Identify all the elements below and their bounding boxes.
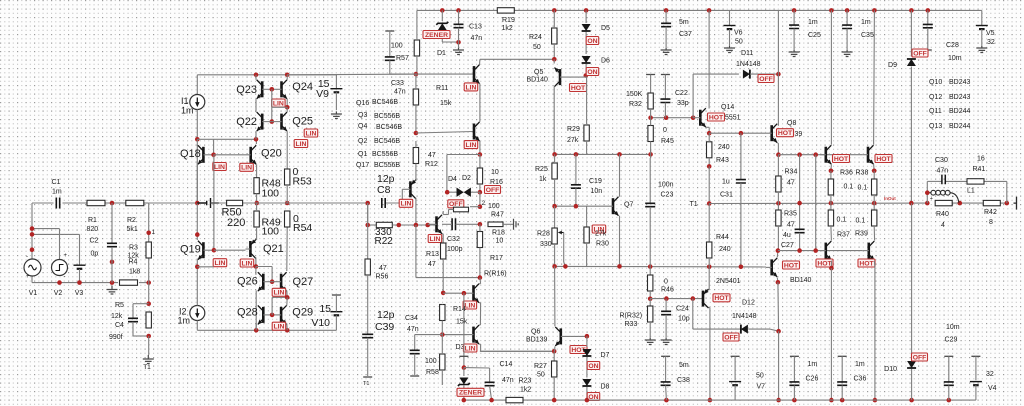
svg-text:C38: C38	[677, 377, 690, 384]
transistor Q21	[249, 241, 252, 257]
diode D10	[911, 203, 913, 359]
wire R53 to rail	[286, 185, 288, 203]
svg-text:LIN: LIN	[274, 324, 285, 331]
svg-text:330: 330	[540, 241, 552, 248]
transistor output NPN lower left	[824, 243, 827, 259]
svg-text:R58: R58	[426, 369, 439, 376]
svg-text:ZENER: ZENER	[425, 32, 448, 39]
svg-text:C35: C35	[861, 32, 874, 39]
svg-text:C2: C2	[90, 238, 99, 245]
svg-text:V4: V4	[988, 385, 997, 392]
svg-text:C32: C32	[447, 236, 460, 243]
svg-text:100: 100	[425, 358, 437, 365]
svg-text:47: 47	[787, 222, 795, 229]
wire V9 bottom	[335, 92, 337, 110]
svg-text:50: 50	[756, 373, 764, 380]
wire bottom rail	[464, 399, 506, 401]
svg-text:100: 100	[262, 188, 280, 200]
wire Q28-29 base up	[271, 297, 273, 315]
wire x416 to R16 node	[415, 225, 417, 278]
wire bias link x815	[815, 155, 817, 251]
svg-text:V9: V9	[316, 88, 329, 100]
ground V10 top	[332, 294, 341, 296]
resistor R48	[254, 178, 259, 194]
svg-text:1m: 1m	[855, 361, 865, 368]
node R5 bottom	[146, 334, 151, 339]
svg-text:V10: V10	[311, 317, 330, 329]
resistor R19	[497, 8, 514, 13]
wire y351 bus	[480, 350, 554, 352]
resistor R18	[477, 232, 482, 248]
wire y266 bus	[555, 265, 766, 268]
wire C39 column upper	[367, 203, 369, 259]
wire Q28 emitter	[255, 324, 257, 331]
node bottom junctions	[57, 280, 62, 285]
wire y74 rail	[287, 73, 416, 76]
resistor R45	[648, 126, 653, 142]
svg-text:OFF: OFF	[913, 50, 927, 57]
wire Q14 collector	[708, 10, 710, 108]
svg-text:LIN: LIN	[242, 260, 253, 267]
svg-text:220: 220	[227, 217, 245, 229]
resistor R56	[365, 259, 370, 275]
wire input bottom	[32, 282, 118, 284]
svg-text:Q17: Q17	[356, 162, 369, 169]
capacitor C4	[133, 303, 149, 305]
svg-text:C31: C31	[720, 192, 733, 199]
svg-text:R32: R32	[629, 101, 642, 108]
transistor output NPN upper left	[824, 147, 827, 163]
svg-text:50: 50	[537, 372, 545, 379]
wire top rail left corner	[416, 10, 418, 39]
svg-text:R22: R22	[375, 236, 394, 247]
svg-text:L1: L1	[967, 188, 975, 195]
wire Q5 col	[553, 59, 555, 63]
resistor R50	[227, 200, 243, 205]
wire top input	[32, 202, 54, 204]
svg-text:HOT: HOT	[784, 262, 799, 269]
label LIN Q20	[240, 163, 254, 171]
node C2 lower	[110, 260, 115, 265]
wire R3 down to R5	[148, 283, 150, 304]
svg-text:C1: C1	[52, 179, 61, 186]
svg-text:R53: R53	[293, 176, 312, 188]
wire R28 col	[554, 206, 556, 228]
wire front lower collector	[479, 121, 481, 124]
label LIN Q29	[272, 322, 286, 330]
wire Q20 emitter down	[256, 165, 258, 178]
resistor R37	[830, 203, 832, 210]
svg-text:Q10: Q10	[929, 79, 942, 86]
svg-text:HOT: HOT	[714, 295, 729, 302]
svg-text:0.1: 0.1	[856, 218, 866, 225]
svg-text:150K: 150K	[626, 91, 643, 98]
capacitor C28	[927, 10, 929, 24]
transistor front cascode lower	[473, 124, 476, 140]
wire 5401 collector down	[709, 306, 710, 308]
wire stub to V3 top	[32, 233, 80, 235]
wire Q26 emitter	[255, 291, 257, 331]
capacitor C36	[838, 355, 847, 357]
wire R48 to rail	[256, 194, 258, 203]
node Q5 emitter	[552, 57, 557, 62]
resistor R44	[708, 204, 710, 243]
wire R16 col	[479, 155, 481, 168]
diode D12	[741, 325, 748, 334]
wire 5401 emitter up	[708, 289, 711, 291]
svg-text:HOT: HOT	[876, 156, 891, 163]
svg-text:100: 100	[391, 43, 403, 50]
svg-text:C30: C30	[935, 157, 948, 164]
svg-text:R36: R36	[840, 170, 853, 177]
wire y293 bus	[443, 292, 468, 294]
svg-text:V7: V7	[757, 384, 766, 391]
svg-text:BD244: BD244	[949, 108, 971, 115]
resistor R27	[553, 351, 555, 361]
label ON D8	[587, 393, 600, 401]
svg-text:1m: 1m	[52, 189, 62, 196]
label OFF D10	[912, 353, 928, 361]
wire BD140 emitter	[776, 277, 779, 282]
capacitor C29	[944, 355, 953, 357]
svg-text:5m: 5m	[679, 19, 689, 26]
resistor R36	[830, 171, 832, 179]
svg-text:Q23: Q23	[236, 84, 257, 96]
node mirror top left	[254, 73, 259, 78]
svg-text:C26: C26	[806, 376, 819, 383]
svg-text:Q24: Q24	[292, 81, 313, 93]
svg-text:Q27: Q27	[293, 276, 314, 288]
svg-text:LIN: LIN	[466, 84, 477, 91]
svg-text:1k: 1k	[539, 176, 547, 183]
svg-text:R5: R5	[115, 302, 124, 309]
svg-text:47: 47	[379, 265, 387, 272]
svg-text:R28: R28	[537, 231, 550, 238]
svg-text:4: 4	[941, 222, 945, 229]
wire bias lower collector	[479, 324, 480, 326]
capacitor C22	[661, 74, 670, 76]
svg-text:LIN: LIN	[430, 236, 441, 243]
svg-text:R3: R3	[129, 245, 138, 252]
wire y298 bus	[650, 298, 703, 300]
transistor Q6	[559, 328, 562, 344]
transistor Q24	[280, 81, 283, 97]
transistor Q8	[770, 125, 773, 141]
capacitor C13	[458, 10, 460, 24]
wire Q7 emitter down	[619, 216, 621, 267]
svg-text:C13: C13	[469, 24, 482, 31]
transistor Q18	[202, 147, 205, 163]
label OFF R16	[485, 186, 501, 194]
svg-text:Q14: Q14	[721, 104, 734, 111]
transistor Q7	[612, 198, 615, 214]
svg-text:T1: T1	[690, 201, 698, 208]
svg-text:100p: 100p	[447, 246, 463, 253]
svg-text:C4: C4	[115, 322, 124, 329]
svg-text:C36: C36	[854, 376, 867, 383]
wire y154 to diode col	[447, 154, 480, 156]
capacitor C23	[649, 158, 651, 203]
node y266 dots	[552, 264, 557, 269]
svg-text:0: 0	[664, 279, 668, 286]
svg-text:1m: 1m	[178, 316, 191, 326]
voltage source V1	[24, 259, 41, 276]
resistor R16	[477, 168, 482, 184]
label OFF vbe	[448, 200, 464, 208]
label LIN Q18	[213, 163, 227, 171]
svg-text:15k: 15k	[440, 100, 452, 107]
diode D5	[585, 10, 587, 23]
wire mirror base link	[271, 89, 273, 121]
resistor R13	[441, 243, 446, 259]
svg-text:27k: 27k	[567, 137, 579, 144]
svg-text:47n: 47n	[502, 377, 514, 384]
wire I2 top	[196, 267, 198, 306]
node mirror top right	[285, 73, 290, 78]
transistor Q25	[280, 114, 283, 130]
wire upper base bus	[778, 154, 862, 156]
svg-text:OFF: OFF	[724, 334, 738, 341]
svg-text:15: 15	[319, 303, 331, 315]
resistor R33	[649, 299, 651, 306]
svg-text:Q2: Q2	[358, 138, 367, 145]
wire lower base bus	[778, 250, 862, 252]
zener D1	[441, 10, 443, 21]
wire bias lower emitter	[479, 343, 481, 345]
transistor Q29	[280, 307, 283, 323]
ground R47	[514, 219, 519, 230]
diode D9	[910, 10, 912, 56]
resistor R53	[285, 169, 290, 185]
diode D4 D2 pair	[447, 191, 459, 193]
capacitor C19	[575, 154, 577, 184]
svg-text:240: 240	[719, 246, 731, 253]
wire R57 to node	[416, 57, 418, 74]
svg-text:Q5: Q5	[534, 69, 543, 76]
wire base to collector tie	[272, 106, 287, 108]
svg-text:D1: D1	[437, 50, 446, 57]
capacitor C32	[452, 218, 455, 230]
svg-text:ON: ON	[588, 363, 598, 370]
svg-text:100n: 100n	[658, 182, 674, 189]
wire R58 bottom	[441, 381, 443, 385]
wire VAS emitter join R12	[415, 180, 417, 181]
svg-text:D6: D6	[601, 58, 610, 65]
svg-text:Q29: Q29	[292, 307, 313, 319]
label LIN front lower	[464, 141, 478, 149]
current source I1	[190, 95, 205, 110]
label LIN b	[294, 140, 308, 148]
svg-text:R45: R45	[661, 138, 674, 145]
node rail x710	[708, 398, 713, 403]
svg-text:-: -	[952, 194, 954, 201]
resistor Vbe loop	[454, 207, 469, 212]
svg-text:100: 100	[488, 203, 500, 210]
svg-text:HOT: HOT	[571, 85, 586, 92]
svg-text:D9: D9	[888, 62, 897, 69]
svg-text:HOT: HOT	[834, 156, 849, 163]
svg-text:5551: 5551	[725, 115, 741, 122]
label LIN a	[304, 129, 318, 137]
svg-text:10n: 10n	[591, 188, 603, 195]
wire stub to V2 top	[32, 228, 60, 230]
current source I2	[190, 306, 205, 321]
svg-text:D7: D7	[601, 352, 610, 359]
wire y133 base link	[416, 132, 473, 134]
label ON D6	[586, 68, 599, 76]
transistor Q26	[262, 274, 265, 290]
wire y117 bus	[651, 117, 695, 119]
node C8 left	[365, 201, 370, 206]
svg-text:R13: R13	[426, 251, 439, 258]
wire VAS collector down	[415, 198, 417, 225]
svg-text:240: 240	[718, 144, 730, 151]
svg-text:R39: R39	[855, 231, 868, 238]
svg-text:LIN: LIN	[296, 141, 307, 148]
svg-text:2: 2	[482, 200, 486, 207]
svg-text:OFF: OFF	[486, 187, 500, 194]
resistor R30	[586, 206, 588, 227]
ground input	[107, 286, 118, 295]
label LIN Q21	[240, 259, 254, 267]
wire our collector	[873, 10, 876, 144]
wire Q25-R53	[286, 131, 288, 169]
svg-text:R2: R2	[127, 217, 136, 224]
svg-text:BD243: BD243	[949, 94, 971, 101]
svg-text:Q7: Q7	[624, 202, 633, 209]
diode D11	[743, 70, 750, 79]
svg-text:C37: C37	[679, 31, 692, 38]
svg-text:R33: R33	[625, 321, 638, 328]
svg-text:12k: 12k	[111, 313, 123, 320]
label LIN VAS	[399, 199, 413, 207]
wire y154 bus	[554, 153, 650, 155]
svg-text:R11: R11	[436, 85, 448, 92]
wire Q19 emitter down	[196, 259, 198, 267]
node T1 rail	[707, 201, 712, 206]
wire Q27 collector up	[286, 227, 288, 271]
resistor R47h	[488, 222, 503, 227]
svg-text:R19: R19	[502, 17, 515, 24]
svg-text:C39: C39	[375, 321, 394, 333]
node R11-R12	[414, 131, 419, 136]
capacitor C2	[111, 203, 113, 243]
transistor Q19	[202, 242, 205, 258]
capacitor C26	[790, 355, 799, 357]
svg-text:V3: V3	[75, 290, 84, 297]
node D7 top	[585, 334, 590, 339]
wire Q27 emitter down	[286, 291, 288, 298]
svg-text:D5: D5	[601, 25, 610, 32]
resistor R4	[120, 280, 138, 285]
diode D7	[582, 349, 591, 356]
transistor Q5	[559, 69, 562, 85]
resistor R54	[285, 211, 290, 227]
label LIN Q27	[272, 288, 286, 296]
svg-text:BC546B: BC546B	[372, 99, 398, 106]
svg-text:1m: 1m	[181, 106, 194, 116]
wire C27 col	[799, 155, 801, 230]
svg-text:47: 47	[428, 152, 436, 159]
wire Q25 emitter down	[286, 107, 288, 112]
svg-text:Q8: Q8	[787, 120, 796, 127]
svg-text:OFF: OFF	[759, 76, 773, 83]
svg-text:C8: C8	[377, 184, 391, 196]
label LIN bias upper	[463, 301, 477, 309]
svg-text:1m: 1m	[861, 19, 871, 26]
voltage source V2	[52, 260, 68, 276]
svg-text:R43: R43	[716, 157, 729, 164]
capacitor C1	[56, 198, 59, 209]
svg-text:47n: 47n	[407, 326, 419, 333]
node bottom rail dots	[462, 398, 467, 403]
wire Q18 column	[196, 139, 198, 203]
label HOT BD140	[783, 261, 800, 269]
resistor R34	[777, 155, 779, 176]
node Q28 Q29 base	[270, 313, 275, 318]
wire front upper collector	[479, 59, 481, 64]
node R1-R2	[110, 201, 115, 206]
node input junctions	[30, 226, 35, 231]
wire output rail T1	[709, 202, 926, 204]
svg-text:BD140: BD140	[527, 77, 549, 84]
svg-text:BC546B: BC546B	[374, 138, 400, 145]
wire Q18 emitter down	[196, 163, 198, 203]
node R5 top	[146, 301, 151, 306]
node R16 adj	[478, 275, 483, 280]
svg-text:-: -	[26, 254, 28, 260]
svg-text:1m: 1m	[808, 361, 818, 368]
wire Q22 column	[255, 111, 257, 113]
svg-text:BC556B: BC556B	[372, 151, 398, 158]
label OFF D11	[758, 75, 774, 83]
svg-text:10m: 10m	[948, 55, 962, 62]
svg-text:HOT: HOT	[778, 130, 793, 137]
wire Q19-Q21 base	[214, 249, 246, 251]
svg-text:ON: ON	[587, 69, 597, 76]
svg-text:I1: I1	[181, 96, 189, 106]
wire Q26 collector	[255, 267, 257, 275]
svg-text:HOT: HOT	[859, 260, 874, 267]
svg-text:C19: C19	[589, 178, 602, 185]
label OFF D12	[723, 333, 739, 341]
capacitor C37	[665, 10, 667, 23]
svg-text:Q6: Q6	[531, 329, 540, 336]
wire oul collector	[830, 10, 832, 144]
label ON D5	[586, 37, 599, 45]
svg-text:1k8: 1k8	[129, 269, 140, 276]
ground T1 input	[143, 355, 154, 364]
capacitor C35	[846, 10, 848, 25]
svg-text:C14: C14	[500, 361, 513, 368]
svg-text:T1: T1	[363, 381, 369, 387]
zener diode D13	[463, 368, 465, 376]
resistor R42	[983, 200, 1000, 205]
wire R28 wiper	[563, 233, 565, 263]
wire Q6 emitter	[554, 346, 556, 351]
resistor R39	[873, 203, 875, 210]
resistor R12	[413, 148, 418, 164]
svg-text:50: 50	[533, 44, 541, 51]
svg-text:R(R32): R(R32)	[620, 313, 643, 320]
svg-text:R44: R44	[716, 234, 729, 241]
wire Q29 collector up	[286, 297, 288, 305]
svg-text:990f: 990f	[109, 334, 123, 341]
svg-text:10m: 10m	[946, 324, 960, 331]
output terminal	[1014, 197, 1017, 210]
wire base link Q18	[197, 138, 256, 140]
svg-text:47n: 47n	[937, 168, 949, 175]
